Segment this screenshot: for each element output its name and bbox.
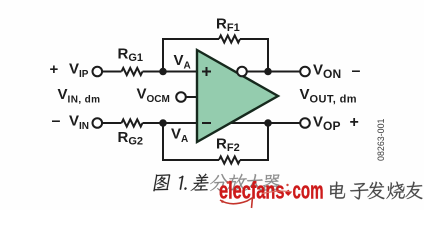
wire: RG1 to op-amp + input: [143, 71, 198, 73]
watermark char 友: [405, 182, 422, 199]
resistor RF1 body: [219, 35, 240, 42]
wire: top feedback from node VA up and right to RF1: [163, 39, 219, 72]
op-amp - input sign: [202, 122, 211, 124]
logo swash over ans: [262, 191, 292, 193]
terminal VON: [300, 67, 310, 77]
wire: RF2 to bottom output node: [240, 123, 268, 160]
terminal VOCM: [176, 92, 186, 102]
logo sparkle dot 2: [221, 200, 224, 203]
wire: noninverted output to VOP terminal: [231, 122, 300, 124]
caption char 分: [210, 174, 229, 191]
op-amp inverted output bubble: [237, 67, 247, 77]
watermark char 子: [350, 183, 368, 199]
terminal VIP: [93, 67, 103, 77]
watermark char 烧: [386, 182, 404, 200]
wire: VIP terminal to RG1: [102, 71, 122, 73]
caption char 放: [227, 174, 247, 191]
svg-text:–: –: [352, 63, 361, 80]
svg-text:08263-001: 08263-001: [376, 119, 386, 162]
resistor RG1 body: [122, 68, 143, 75]
logo swash under f: [252, 197, 253, 208]
wire: VIN terminal to RG2: [102, 122, 122, 124]
resistor RG2 body: [122, 119, 143, 126]
logo sparkle dot 3: [286, 184, 288, 186]
terminal VOP: [300, 118, 310, 128]
caption char .: [184, 187, 186, 189]
wire: RF1 to top output node: [240, 39, 268, 72]
wire: bottom feedback from node VA down and right to RF2: [163, 123, 219, 160]
svg-text:+: +: [350, 114, 359, 131]
watermark logo separator dot: [285, 190, 291, 196]
watermark char 发: [367, 182, 384, 199]
terminal VIN: [93, 118, 103, 128]
watermark char 电: [330, 182, 345, 199]
wire: RG2 to op-amp - input: [143, 122, 198, 124]
resistor RF2 body: [219, 156, 240, 163]
junction top output: [264, 68, 272, 76]
caption char 差: [191, 174, 209, 191]
caption char 器: [263, 174, 280, 191]
svg-text:+: +: [50, 61, 59, 78]
op-amp + input sign: [202, 67, 211, 76]
caption char 大: [244, 174, 263, 191]
wire: inverted output bubble to VON terminal: [247, 71, 300, 73]
logo swash under elec: [220, 198, 252, 204]
svg-text:com: com: [293, 177, 324, 204]
caption char 图: [153, 174, 170, 191]
junction bottom output: [264, 119, 272, 127]
junction node VA bottom: [159, 119, 167, 127]
svg-text:–: –: [52, 113, 61, 130]
junction node VA top: [159, 68, 167, 76]
caption char 1: [179, 176, 184, 190]
logo sparkle dot 1: [227, 181, 230, 184]
wire: VOCM terminal to op-amp: [186, 96, 198, 98]
op-amp U1 triangle: [197, 50, 278, 142]
